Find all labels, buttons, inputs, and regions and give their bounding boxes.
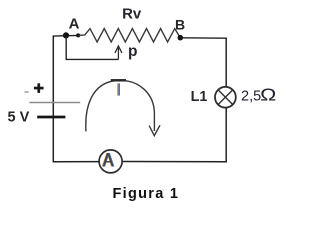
svg-text:Rv: Rv [122, 6, 142, 23]
wire right vertical lower (lamp to bottom) [225, 108, 227, 163]
current arrow I (curved arc) [86, 80, 155, 131]
ammeter letter A (with ClearType-like fringe) [102, 151, 115, 172]
svg-text:Ω: Ω [260, 85, 276, 105]
svg-text:Figura 1: Figura 1 [113, 186, 180, 202]
battery top plate (positive, long thin) [29, 102, 80, 104]
svg-text:A: A [69, 15, 80, 32]
wire right vertical upper (to lamp) [225, 38, 227, 87]
battery bottom plate (negative, short thick) [37, 116, 65, 119]
wire left vertical (battery branch) [52, 36, 54, 162]
wire top-left horizontal [53, 34, 78, 37]
label I (orange/blue fringed bar) [117, 83, 118, 95]
wire bottom-right horizontal [122, 161, 227, 163]
svg-text:B: B [175, 16, 185, 32]
node P terminal dot (left end of Rv) [76, 33, 80, 37]
node B [178, 35, 184, 41]
wire wiper return horizontal [66, 58, 119, 60]
svg-text:5 V: 5 V [8, 109, 30, 125]
stray dash artifact left of plus [25, 91, 29, 92]
svg-text:A: A [103, 151, 114, 172]
battery plus sign [34, 83, 44, 93]
rheostat wiper arrowhead [115, 46, 122, 53]
svg-text:2,5: 2,5 [241, 88, 261, 104]
svg-text:L1: L1 [191, 89, 208, 105]
ammeter A (circle) [99, 150, 122, 173]
wire bottom-left horizontal [53, 161, 100, 163]
node A [63, 32, 69, 38]
current arrowhead [149, 125, 160, 135]
resistor Rv (zigzag) [78, 29, 180, 43]
lamp L1 (circle with X) [215, 87, 236, 108]
wire B to top-right corner [180, 37, 227, 39]
svg-text:p: p [128, 43, 137, 60]
rheostat wiper arrow shaft [117, 46, 119, 59]
wire wiper return vertical to node A [65, 35, 67, 59]
